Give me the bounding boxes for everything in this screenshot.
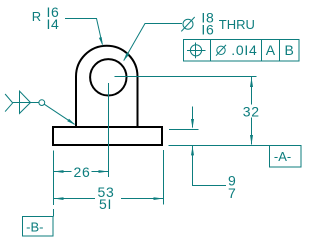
extension line base bottom to datum A — [169, 145, 270, 147]
svg-text:R: R — [32, 9, 41, 24]
surface symbol leader — [44, 104, 74, 124]
svg-text:I6: I6 — [201, 22, 214, 38]
feature control frame box — [184, 40, 300, 62]
dim line 32 lower segment — [251, 118, 253, 145]
arrowhead surface leader — [67, 119, 75, 125]
vertical centerline — [108, 83, 110, 177]
surface symbol shaft — [13, 102, 39, 104]
leader R dimension — [65, 19, 102, 45]
svg-text:B: B — [285, 42, 294, 58]
arrowhead 26 right — [99, 170, 109, 173]
leader diameter dimension — [124, 24, 182, 61]
extension line left of base — [53, 151, 55, 217]
svg-text:-B-: -B- — [26, 220, 43, 235]
arrowhead diameter leader — [123, 53, 129, 61]
surface symbol open arrow — [5, 94, 13, 112]
surface symbol circle — [39, 100, 45, 106]
svg-text:THRU: THRU — [219, 17, 255, 32]
dim line 32 upper segment — [251, 77, 253, 105]
extension line right of base — [163, 150, 165, 205]
svg-text:.0I4: .0I4 — [231, 42, 257, 58]
hole circle — [90, 59, 126, 95]
position symbol — [190, 45, 201, 56]
svg-text:26: 26 — [74, 164, 91, 180]
arrowhead 32 bottom — [250, 135, 253, 145]
svg-text:I4: I4 — [46, 16, 59, 32]
datum B box — [23, 217, 54, 237]
diameter symbol in frame — [217, 46, 225, 54]
arrowhead 9/7 down — [191, 119, 194, 129]
datum A box — [270, 146, 302, 168]
svg-text:5I: 5I — [99, 196, 112, 212]
svg-text:-A-: -A- — [274, 149, 291, 164]
leader 9/7 lower — [193, 146, 227, 186]
dim line 53/51 — [54, 198, 164, 200]
arrowhead R leader — [99, 37, 103, 46]
arrowhead 32 top — [250, 77, 253, 87]
extension line base top for 9/7 — [169, 129, 199, 131]
feature control frame dividers — [211, 40, 280, 62]
arrowhead 53 right — [154, 197, 164, 200]
base plate rectangle — [53, 127, 162, 145]
svg-text:7: 7 — [228, 185, 236, 201]
svg-text:32: 32 — [243, 104, 260, 120]
diameter symbol large — [183, 19, 193, 29]
arrowhead 9/7 up — [191, 146, 194, 155]
arrow line 9/7 upper — [192, 107, 194, 128]
arrowhead 53 left — [54, 197, 64, 200]
horizontal centerline — [115, 76, 257, 78]
surface symbol triangle — [20, 91, 31, 113]
arrowhead 26 left — [54, 170, 64, 173]
part outline lug body with rounded top — [76, 46, 138, 128]
dim line 26 — [54, 171, 109, 173]
svg-text:A: A — [266, 42, 276, 58]
